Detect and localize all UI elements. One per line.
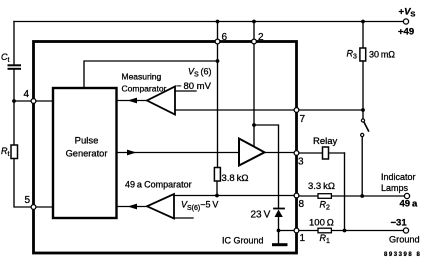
- terminal +Vs circle: [403, 19, 408, 24]
- relay switch contact: wire below junction: [362, 110, 364, 119]
- wire measuring comparator input from pin 7: [175, 109, 297, 111]
- node junction top rail at R3: [361, 20, 365, 24]
- wire zener to ground: [278, 217, 280, 244]
- wire output comparator to pin 3: [265, 152, 297, 154]
- op-amp 49a comparator: [147, 194, 174, 219]
- wire pin6 stub to top rail: [217, 22, 219, 40]
- pin 3 circle: [294, 151, 299, 156]
- arrowhead pulse output: [127, 150, 137, 156]
- wire 49a comparator ref stub: [174, 217, 193, 219]
- wire left vertical from rail to Ct: [13, 22, 15, 65]
- svg-text:IC Ground: IC Ground: [222, 236, 264, 246]
- svg-text:3.8 kΩ: 3.8 kΩ: [222, 173, 249, 184]
- node junction zener ground to pin 1: [277, 229, 281, 233]
- wire pulse generator output: [117, 152, 240, 154]
- resistor R1 100 Ohm: [318, 228, 331, 233]
- wire R3 bottom to switch: [362, 61, 364, 110]
- wire pin2 stub to top rail: [253, 22, 255, 40]
- arrowhead 49a output into pulse generator: [128, 204, 138, 210]
- wire 49a comparator output to pulse generator: [117, 206, 148, 208]
- node junction pin6 net at y61: [216, 59, 220, 63]
- svg-text:3.3 kΩ: 3.3 kΩ: [308, 181, 335, 192]
- node junction switch on lamp line: [360, 194, 364, 198]
- junction dot top rail above pin 6: [216, 20, 220, 24]
- svg-text:Ground: Ground: [389, 234, 420, 244]
- switch arm: [364, 122, 368, 130]
- svg-text:Indicator: Indicator: [381, 172, 416, 182]
- wire measuring comparator ref stub: [175, 90, 196, 92]
- svg-text:−31: −31: [391, 218, 408, 229]
- svg-text:7: 7: [300, 114, 306, 125]
- op-amp output comparator: [239, 139, 265, 166]
- node junction -31 net at pin1 line: [343, 229, 347, 233]
- node junction 3.8k on 49a input line: [215, 194, 219, 198]
- svg-text:49 a: 49 a: [400, 199, 418, 210]
- terminal 49a circle: [404, 193, 409, 198]
- junction dot top rail above pin 2: [252, 20, 256, 24]
- switch fixed contact circle: [361, 133, 364, 136]
- wire 3.8k bottom to 49a line: [216, 182, 218, 196]
- arrowhead into pulse generator: [128, 98, 138, 104]
- svg-text:30 mΩ: 30 mΩ: [369, 50, 395, 60]
- wire relay right vertical to -31 net: [344, 153, 346, 231]
- svg-text:Lamps: Lamps: [381, 183, 409, 193]
- svg-text:3: 3: [298, 157, 304, 168]
- IC outer box: [34, 42, 297, 254]
- wire 49a comparator upper input to pin 8: [174, 195, 297, 197]
- wire pin 4 horizontal: [14, 100, 53, 102]
- wire pin 7 to relay switch: [299, 109, 363, 111]
- pin 5 circle: [31, 205, 36, 210]
- wire feedback pin6 to pulse generator top: [84, 61, 218, 88]
- svg-text:Relay: Relay: [313, 136, 338, 147]
- svg-text:6: 6: [222, 32, 228, 43]
- svg-text:100 Ω: 100 Ω: [309, 218, 334, 229]
- svg-text:1: 1: [300, 233, 306, 244]
- pin 4 circle: [31, 99, 36, 104]
- wire Ct to Rt: [13, 70, 15, 146]
- wire pin 1 line to ground terminal: [299, 230, 406, 232]
- pulse generator box: [53, 88, 117, 218]
- wire pin 3 to relay: [299, 152, 345, 154]
- relay coil box: [323, 147, 329, 159]
- terminal -31 ground circle: [403, 228, 408, 233]
- svg-text:− 80 mV: − 80 mV: [176, 81, 212, 92]
- ground IC ground bar: [274, 243, 287, 246]
- svg-text:Measuring: Measuring: [122, 72, 162, 82]
- svg-text:Pulse: Pulse: [75, 136, 99, 147]
- op-amp measuring comparator: [147, 87, 175, 115]
- node junction R3 bottom: [361, 108, 365, 112]
- wire junction to pin 1: [279, 230, 297, 232]
- zener diode triangle: [275, 210, 283, 218]
- resistor Rt: [11, 145, 18, 159]
- pin 1 circle: [294, 228, 299, 233]
- svg-text:+49: +49: [398, 27, 414, 38]
- switch pivot circle: [361, 119, 364, 122]
- node junction at pin4 wire: [12, 99, 16, 103]
- svg-text:49 a Comparator: 49 a Comparator: [125, 179, 192, 189]
- wire pin 6 vertical down to 3.8k resistor: [217, 44, 219, 167]
- wire measuring comparator output to pulse generator: [117, 100, 148, 102]
- wire switch to 49a lamp line: [361, 137, 363, 196]
- pin 8 circle: [294, 193, 299, 198]
- resistor R3: [360, 48, 366, 61]
- svg-text:5: 5: [25, 195, 31, 206]
- pin 7 circle: [294, 108, 299, 113]
- wire top supply rail +Vs: [14, 21, 406, 23]
- node junction pin2 branch: [252, 123, 256, 127]
- pin 6 circle: [215, 39, 220, 44]
- wire R3 top: [362, 22, 364, 49]
- resistor 3.8 kOhm: [214, 168, 220, 182]
- svg-text:8: 8: [299, 199, 305, 210]
- wire pin 8 line to 49a terminal: [299, 195, 407, 197]
- svg-text:23 V: 23 V: [251, 210, 271, 221]
- svg-text:Generator: Generator: [66, 148, 108, 158]
- svg-text:893398 8: 893398 8: [384, 252, 421, 258]
- zener diode 23V cathode bar: [274, 208, 284, 210]
- resistor R2 3.3k: [318, 194, 331, 199]
- svg-text:Comparator: Comparator: [122, 84, 167, 94]
- capacitor Ct: [9, 65, 21, 69]
- svg-text:4: 4: [24, 89, 30, 100]
- wire Rt to pin 5: [14, 159, 53, 208]
- wire branch to zener: [254, 125, 279, 208]
- wire pin 2 vertical to comparator strobe: [253, 44, 255, 147]
- pin 2 circle: [252, 39, 257, 44]
- svg-text:2: 2: [258, 32, 264, 43]
